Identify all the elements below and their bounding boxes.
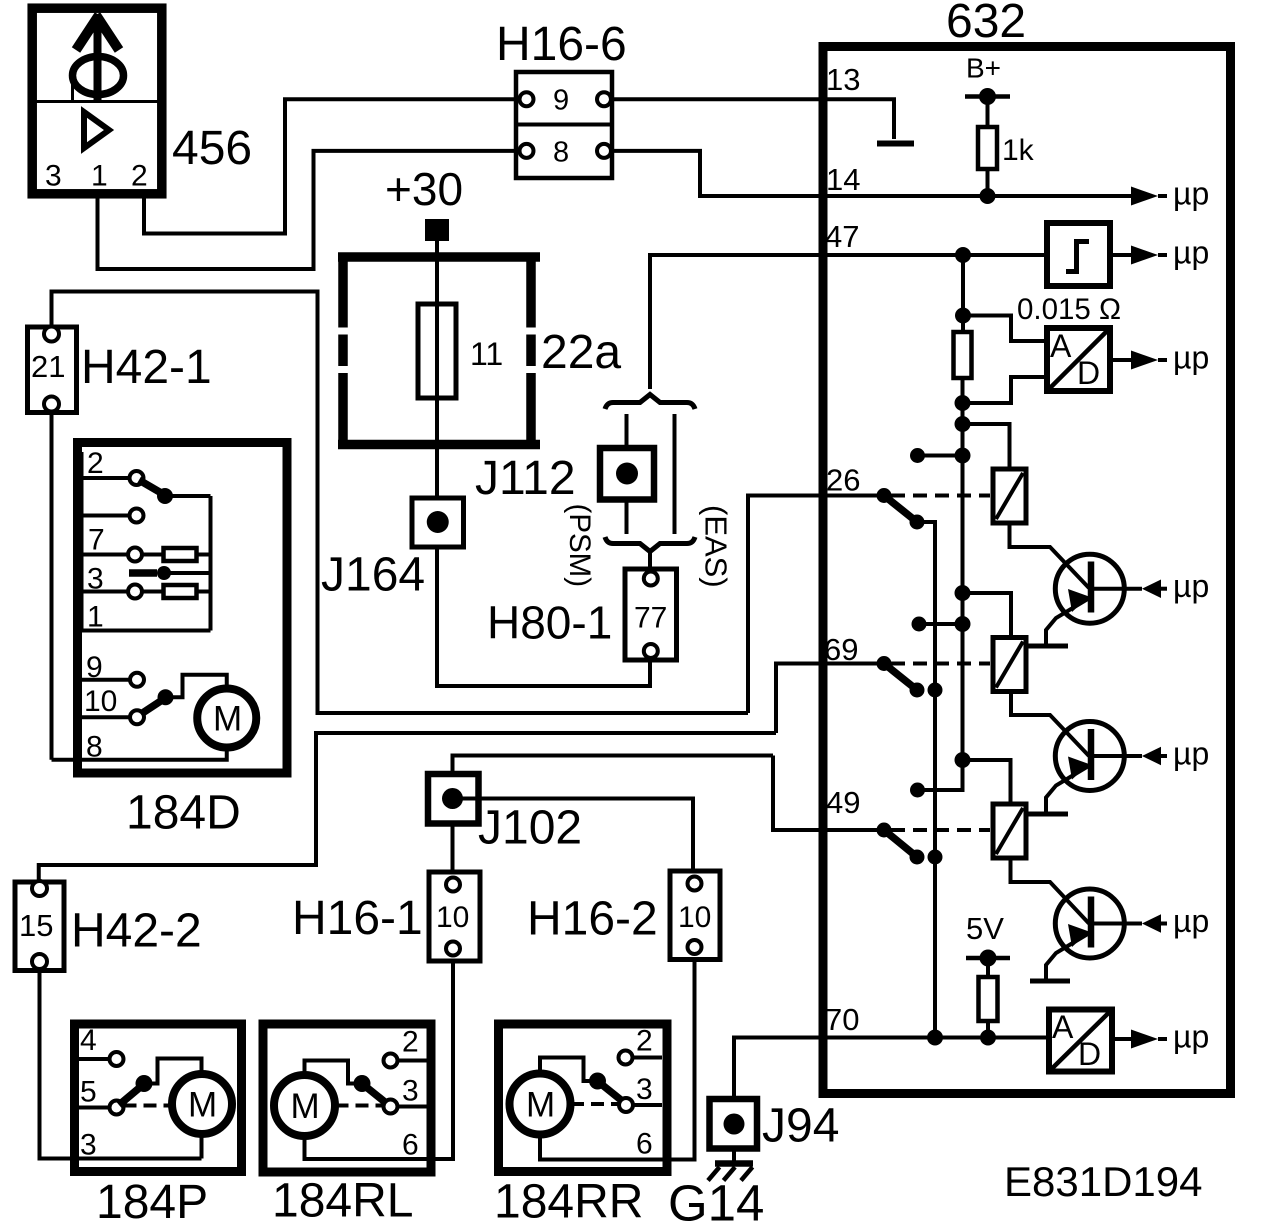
wire J102 down to H16-1 top (451, 824, 455, 872)
arrow from up to Q3 base (1091, 903, 1209, 939)
184P pin 5 row (79, 1076, 124, 1115)
wire EAS branch (673, 414, 677, 534)
184D pin 9 row (82, 651, 144, 687)
brace bottom under J112/EAS branches (605, 537, 695, 552)
wire driver1 to transistor Q1 (1010, 523, 1090, 588)
wire pin 69 (776, 664, 884, 734)
switch 69 pivot dot (877, 656, 892, 671)
svg-text:632: 632 (946, 0, 1026, 48)
svg-text:2: 2 (131, 160, 148, 193)
sw69 upper contact dot (912, 617, 927, 632)
bus below shunt (918, 378, 963, 790)
svg-text:A: A (1050, 328, 1072, 364)
switch unit 456 box (32, 8, 162, 194)
svg-text:A: A (1052, 1009, 1074, 1045)
junction dot wire14 and 1k (980, 188, 996, 204)
svg-text:5V: 5V (966, 911, 1004, 946)
junction dot 5V resistor on pin70 wire (980, 1030, 996, 1046)
svg-text:µp: µp (1173, 340, 1209, 376)
svg-text:(EAS): (EAS) (699, 505, 734, 588)
svg-text:2: 2 (87, 447, 104, 480)
A/D converter 2 box (1049, 1009, 1112, 1072)
arrow from up to Q2 base (1091, 736, 1209, 772)
wire J164 down to H80-1 pin 77 (437, 547, 650, 686)
stub brace to H80-1 (648, 553, 652, 570)
184P pin 3 row motor return (80, 1129, 202, 1162)
svg-text:70: 70 (825, 1002, 859, 1037)
wire driver2 to transistor Q2 (1011, 692, 1089, 757)
svg-text:H42-1: H42-1 (81, 341, 212, 394)
184RR pin 6 row motor return (540, 1128, 662, 1161)
sw26 upper contact dot (910, 448, 925, 463)
lock motor 184RR box (499, 1024, 668, 1172)
wire terminal 30 down through fuse to J164 (435, 241, 439, 498)
svg-text:µp: µp (1173, 176, 1209, 212)
wire pin 14 from H16-6 pin8 to microprocessor (611, 151, 1131, 196)
svg-text:3: 3 (636, 1073, 653, 1106)
svg-text:E831D194: E831D194 (1004, 1158, 1203, 1205)
fuse 11 body (418, 304, 456, 398)
svg-text:2: 2 (402, 1026, 419, 1059)
connector H16-2 (670, 871, 720, 960)
wire driver3 to transistor Q3 (1011, 858, 1090, 924)
svg-text:47: 47 (825, 219, 859, 254)
svg-text:M: M (526, 1086, 555, 1125)
svg-text:10: 10 (436, 901, 469, 934)
svg-text:M: M (213, 700, 242, 739)
wire J102 to H16-2 top (453, 799, 694, 871)
junction connector J164 (412, 498, 464, 547)
wire 632 pin 69 down to H42-2 (39, 733, 776, 882)
dashed actuation line sw26 (891, 494, 990, 498)
184RL dashed actuation to motor (336, 1104, 385, 1108)
wire bus to driver1 (963, 424, 1010, 469)
junction dot 47 on bus (955, 247, 971, 263)
main sense bus vertical (961, 255, 965, 332)
184D pin 2 row (82, 447, 144, 485)
184RL pin 2 row (384, 1026, 428, 1068)
svg-text:H16-2: H16-2 (527, 893, 658, 946)
junction dot bus to sw69 contact (955, 616, 971, 632)
H16-6 pin 9 circles (520, 85, 612, 117)
svg-text:21: 21 (31, 349, 65, 384)
driver stage 2 box (993, 638, 1026, 692)
svg-text:J102: J102 (478, 802, 582, 855)
184D switch blade pin10 (141, 675, 227, 714)
184RL pin 6 row motor return (305, 1129, 428, 1162)
184P switch blade (119, 1059, 202, 1106)
svg-text:6: 6 (636, 1128, 653, 1161)
184RR dashed actuation to motor (571, 1102, 619, 1106)
connector H42-1 (28, 327, 77, 413)
wire bus to driver3 (963, 760, 1011, 804)
svg-text:184P: 184P (96, 1176, 208, 1229)
svg-text:15: 15 (19, 908, 53, 943)
svg-text:1: 1 (91, 160, 108, 193)
184RR switch blade (540, 1058, 624, 1103)
svg-text:H16-6: H16-6 (496, 18, 627, 71)
connector H42-2 (15, 881, 64, 971)
junction dot bus to driver3 (955, 752, 971, 768)
brace top over J112/EAS branches (605, 395, 695, 410)
svg-text:D: D (1077, 355, 1100, 391)
svg-text:8: 8 (553, 137, 569, 169)
switch 26 lower contact dot (910, 515, 925, 530)
wire H16-2 down to 184RR pin 6 (662, 960, 695, 1160)
arrow to up pin 47 (1110, 235, 1209, 271)
svg-text:6: 6 (402, 1129, 419, 1162)
svg-text:H80-1: H80-1 (487, 597, 612, 649)
svg-text:184D: 184D (126, 787, 241, 840)
wire H42-1 bottom down to 184D pin 8 (50, 413, 54, 760)
junction dot bus to driver2 (955, 585, 971, 601)
switch 26 blade (884, 496, 917, 523)
184RR pin 3 row (619, 1073, 662, 1112)
schmitt trigger box U1 (1047, 223, 1110, 286)
wire sw26 contact down to sw69 contact and pin70 rail (917, 522, 935, 1038)
transistor Q2 (1028, 722, 1124, 815)
switch 49 contact dots (910, 850, 943, 865)
dashed actuation line sw69 (891, 662, 990, 666)
junction connector J102 (428, 774, 479, 824)
wire H16-1 down to 184RL pin 6 (427, 961, 453, 1159)
ground bar on pin 13 wire (877, 141, 914, 147)
184D pin 1 row (82, 601, 211, 634)
svg-text:J164: J164 (321, 549, 425, 602)
wire H42-1 top to 632 pin 26 (52, 292, 749, 714)
wire pin 47 (650, 255, 1047, 389)
wire pin 26 (748, 496, 884, 714)
svg-text:M: M (291, 1087, 320, 1126)
arrow from up to Q1 base (1091, 568, 1209, 604)
184D internal contact row lower with resistor (82, 585, 211, 599)
184P pin 4 row (79, 1024, 124, 1066)
svg-text:77: 77 (634, 602, 667, 635)
switch 26 pivot dot (877, 488, 892, 503)
svg-text:4: 4 (80, 1024, 97, 1057)
184D pin 8 row motor return (52, 731, 227, 764)
wire H42-2 down to 184P pin 3 (40, 971, 202, 1159)
switch 69 blade (884, 664, 917, 691)
svg-text:2: 2 (636, 1025, 653, 1058)
svg-text:µp: µp (1173, 1019, 1209, 1055)
wire pin 49 (773, 756, 884, 831)
control unit 632 box (823, 47, 1231, 1094)
node B+ (965, 88, 1010, 127)
wire branch to J112 (625, 414, 629, 448)
node 5V (966, 950, 1010, 978)
svg-text:11: 11 (470, 336, 503, 372)
svg-text:13: 13 (826, 62, 860, 97)
184D connector rail (81, 452, 84, 631)
svg-text:14: 14 (826, 162, 860, 197)
svg-text:+30: +30 (385, 163, 463, 215)
184D pin 3 blade row (87, 563, 211, 596)
svg-text:J112: J112 (475, 452, 576, 505)
junction connector J112 (600, 448, 654, 500)
junction connector J94 (710, 1099, 758, 1149)
wire 456 pin2 to H16-6 pin9 (144, 99, 520, 233)
junction dot bus below shunt (955, 395, 971, 411)
svg-text:10: 10 (84, 685, 117, 718)
wire pin 13 from H16-6 pin9 (611, 99, 894, 139)
ground G14 symbol (708, 1149, 753, 1181)
pullup resistor 5V (979, 977, 998, 1038)
motor M in 184RR (510, 1074, 571, 1135)
svg-text:184RR: 184RR (494, 1176, 643, 1229)
A/D converter 1 box (1047, 328, 1110, 391)
svg-text:3: 3 (45, 160, 62, 193)
svg-text:0.015 Ω: 0.015 Ω (1017, 293, 1121, 326)
svg-text:1k: 1k (1002, 134, 1035, 167)
resistor 1k (978, 127, 1035, 196)
svg-text:H16-1: H16-1 (292, 892, 423, 945)
fuse holder box 22a dashed outline (338, 253, 540, 450)
svg-text:7: 7 (88, 524, 105, 557)
wire sw26 upper contact to bus (918, 454, 963, 458)
driver stage 3 box (993, 804, 1026, 858)
svg-text:µp: µp (1173, 736, 1209, 772)
junction dot rail on pin70 wire (927, 1030, 943, 1046)
456 pin labels 3 1 2 (45, 160, 148, 193)
svg-text:3: 3 (402, 1075, 419, 1108)
motor M in 184D (197, 689, 256, 748)
svg-text:J94: J94 (762, 1100, 839, 1153)
svg-text:5: 5 (80, 1076, 97, 1109)
lock motor 184RL box (263, 1024, 431, 1172)
svg-text:H42-2: H42-2 (71, 905, 202, 958)
arrow to up A/D1 (1110, 340, 1209, 376)
svg-text:26: 26 (826, 463, 860, 498)
wire below J112 (625, 500, 629, 535)
184P dashed actuation to motor (124, 1104, 173, 1108)
svg-text:9: 9 (553, 85, 569, 117)
svg-text:10: 10 (678, 901, 711, 934)
door lock unit 184D box (78, 443, 288, 774)
184D switch blade pin2 (139, 480, 211, 504)
connector H16-1 (429, 872, 480, 961)
184D pin 10 row (82, 685, 144, 724)
184RL switch blade (305, 1061, 389, 1105)
184RL pin 3 row (384, 1075, 428, 1114)
switch 69 contact dots (910, 683, 943, 698)
svg-text:49: 49 (826, 785, 860, 820)
wire bus to driver2 (963, 593, 1012, 638)
transistor Q3 (1030, 889, 1124, 981)
connector H80-1 box pin 77 (625, 569, 677, 660)
svg-text:µp: µp (1173, 903, 1209, 939)
184D pin 7 row with resistor (82, 524, 211, 562)
shunt resistor 0.015 (954, 332, 972, 378)
connector H16-6 box (516, 72, 612, 178)
wire sw69 upper contact to bus (919, 622, 963, 626)
184D right collector rail (209, 496, 213, 631)
svg-text:µp: µp (1173, 568, 1209, 604)
svg-text:M: M (188, 1086, 217, 1125)
antenna symbol in 456 (73, 15, 124, 100)
H16-6 pin 8 circles (520, 137, 612, 169)
svg-text:184RL: 184RL (272, 1175, 413, 1228)
motor M in 184RL (274, 1075, 335, 1136)
junction dot bus to driver1 (955, 416, 971, 432)
svg-text:µp: µp (1173, 235, 1209, 271)
wire 456 pin1 to H16-6 pin8 (98, 151, 520, 269)
lock motor 184P box (75, 1024, 242, 1172)
svg-text:G14: G14 (668, 1175, 764, 1232)
svg-text:(PSM): (PSM) (563, 504, 596, 588)
svg-text:22a: 22a (541, 326, 621, 379)
svg-text:D: D (1078, 1036, 1101, 1072)
dashed actuation line sw49 (891, 828, 990, 832)
svg-text:B+: B+ (966, 53, 1001, 84)
184D internal contact row upper (82, 509, 144, 523)
switch 49 blade (884, 830, 917, 857)
svg-text:456: 456 (172, 122, 252, 175)
arrow to up A/D2 (1112, 1019, 1209, 1055)
sw49 upper contact dot (910, 783, 925, 798)
arrow to up wire 14 (1131, 176, 1209, 212)
wire bus to A/D1 top input (963, 316, 1047, 342)
transistor Q1 (1028, 554, 1124, 646)
wire J102 up to 632 pin 49 (453, 756, 774, 775)
junction dot bus to sw26 contact (955, 448, 971, 464)
svg-text:3: 3 (80, 1129, 97, 1162)
junction dot bus top (955, 308, 971, 324)
184RR pin 2 row (619, 1025, 663, 1065)
driver stage 1 box (993, 469, 1026, 523)
wire bus to A/D1 bottom input (963, 377, 1048, 403)
switch 49 pivot dot (877, 823, 892, 838)
terminal 30 square (425, 219, 449, 241)
motor M in 184P (172, 1074, 232, 1134)
play triangle symbol in 456 (84, 112, 109, 148)
wire pin 70 (734, 1038, 1049, 1100)
